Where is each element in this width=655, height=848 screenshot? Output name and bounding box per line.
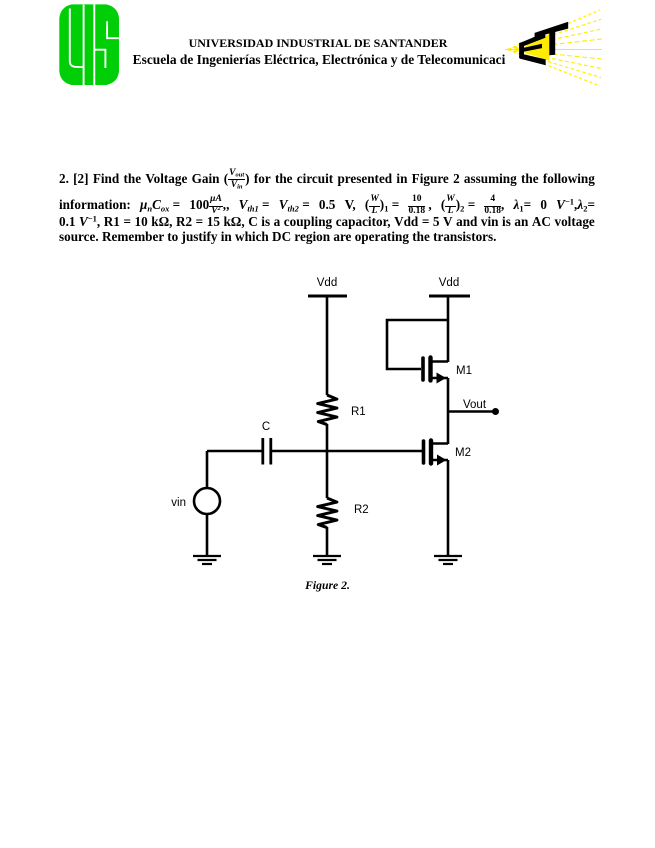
Vdd label right	[439, 277, 459, 289]
UIS logo (green)	[59, 4, 120, 86]
wire Vdd to R1	[326, 296, 329, 395]
paragraph line 1	[59, 169, 595, 191]
transistor M1	[423, 358, 448, 381]
Vout terminal dot	[492, 408, 499, 415]
Vdd rail right	[429, 295, 470, 298]
wire node to vin source	[206, 451, 209, 488]
svg-text:R1: R1	[351, 406, 366, 418]
resistor R1	[318, 395, 337, 425]
figure caption	[0, 579, 655, 592]
transistor M2	[424, 441, 449, 464]
wire M1 diode loop (gate to drain)	[387, 320, 448, 369]
svg-text:vin: vin	[171, 497, 186, 509]
wire M1 source to M2 drain	[447, 378, 450, 444]
ground (below R2)	[313, 556, 341, 564]
header line 2	[0, 53, 638, 66]
svg-text:Vdd: Vdd	[439, 277, 459, 289]
wire gate line (vin node to M2 gate)	[207, 450, 422, 453]
svg-text:Vout: Vout	[463, 399, 487, 411]
paragraph line 2	[59, 195, 595, 217]
svg-text:C: C	[262, 421, 270, 433]
E3T logo (yellow/black)	[503, 6, 605, 90]
header line 1	[0, 37, 636, 49]
label M2	[455, 447, 471, 459]
svg-text:M2: M2	[455, 447, 471, 459]
paragraph line 3	[59, 215, 595, 228]
label C	[262, 421, 270, 433]
capacitor C	[263, 438, 271, 465]
wire R1 to R2 (through gate node)	[326, 424, 329, 498]
wire Vout tap	[448, 410, 495, 413]
label R1	[351, 406, 366, 418]
svg-text:M1: M1	[456, 365, 472, 377]
svg-text:R2: R2	[354, 504, 369, 516]
label vin	[171, 497, 186, 509]
paragraph line 4	[59, 230, 595, 243]
ground (below M2)	[434, 556, 462, 564]
M1 source arrow	[437, 373, 447, 384]
Vdd label left	[317, 277, 337, 289]
wire vin to ground	[206, 514, 209, 556]
ground (below vin)	[193, 556, 221, 564]
label R2	[354, 504, 369, 516]
svg-text:Vdd: Vdd	[317, 277, 337, 289]
Vdd rail left	[308, 295, 347, 298]
wire R2 to ground	[326, 527, 329, 556]
resistor R2	[318, 498, 337, 528]
label Vout	[463, 399, 487, 411]
M2 source arrow	[437, 455, 447, 466]
wire Vdd to M1 drain	[447, 296, 450, 362]
AC source vin	[194, 488, 220, 514]
wire M2 source to ground	[447, 460, 450, 556]
label M1	[456, 365, 472, 377]
